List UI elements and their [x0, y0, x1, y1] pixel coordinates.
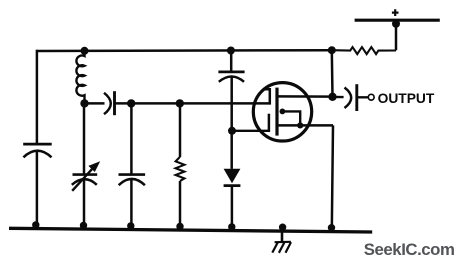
transistor Q1 channel bar [275, 88, 278, 136]
resistor R1 (vertical zigzag) [176, 157, 185, 181]
node G2 wire junction [228, 127, 236, 135]
capacitor C6 (output coupling) [345, 84, 357, 111]
variable capacitor C2 [72, 161, 100, 191]
node drain / output junction [328, 93, 336, 101]
wire diode cathode to bottom rail [231, 186, 234, 231]
diode D1 [224, 169, 241, 186]
wire substrate to source [282, 111, 300, 125]
wire C5 bottom lead down through gate line to diode [230, 77, 233, 169]
wire C3 branch upper [130, 103, 133, 174]
node top of inductor [81, 47, 89, 55]
node top rail / C5 branch [227, 47, 235, 55]
capacitor C1 [23, 144, 52, 157]
node rail ground [279, 224, 286, 231]
label + (positive supply) [392, 9, 399, 16]
node rail R1 [176, 223, 183, 230]
ground symbol [272, 230, 291, 253]
node substrate on channel [280, 109, 286, 115]
node output terminal [368, 94, 374, 100]
capacitor C3 [119, 175, 146, 186]
wire top rail [37, 49, 332, 52]
wire R1 branch upper [179, 103, 182, 157]
node rail C3 [127, 222, 134, 229]
wire variable-capacitor branch lower [83, 180, 86, 229]
wire gate line segment to C4 [85, 102, 105, 105]
node rail C1 [32, 221, 39, 228]
battery positive supply line [355, 19, 440, 22]
node substrate-source junction [297, 122, 303, 128]
wire variable-capacitor branch upper [83, 103, 86, 174]
svg-text:SeekIC.com: SeekIC.com [364, 240, 455, 259]
wire right vertical (rail to drain) [331, 50, 334, 96]
inductor L1 [76, 51, 84, 103]
wire bottom rail (ground bus) [9, 228, 372, 232]
node rail source [328, 224, 335, 231]
transistor Q1 source lead [277, 124, 333, 127]
wire source down to bottom rail [332, 125, 333, 230]
node bottom of inductor / gate line left [80, 99, 88, 107]
node gate line / R1 branch [176, 99, 184, 107]
resistor R2 (horizontal zigzag) [332, 47, 396, 54]
transistor Q1 gate-2 bar [268, 114, 271, 132]
op transistor Q1 MOSFET circle [253, 83, 311, 141]
wire gate line to MOSFET gate [114, 102, 269, 105]
node rail C2 [80, 222, 87, 229]
svg-text:OUTPUT: OUTPUT [378, 91, 435, 106]
wire left vertical upper [36, 50, 39, 144]
wire C5 top lead [230, 50, 233, 72]
node battery terminal [392, 20, 400, 28]
wire battery drop [395, 21, 398, 51]
capacitor C5 [218, 72, 244, 82]
node top rail right end [328, 46, 336, 54]
wire left vertical lower [36, 151, 39, 228]
node rail diode [228, 223, 235, 230]
capacitor C4 (series coupling, gate line) [104, 91, 115, 115]
wire R1 branch lower [179, 181, 182, 230]
transistor Q1 drain lead [277, 95, 333, 98]
wire G2 (lower gate) lead [232, 130, 270, 132]
node gate line / C3 branch [127, 99, 135, 107]
wire output lead [333, 96, 369, 99]
wire C3 branch lower [130, 179, 133, 229]
transistor Q1 gate-1 bar [264, 88, 271, 105]
